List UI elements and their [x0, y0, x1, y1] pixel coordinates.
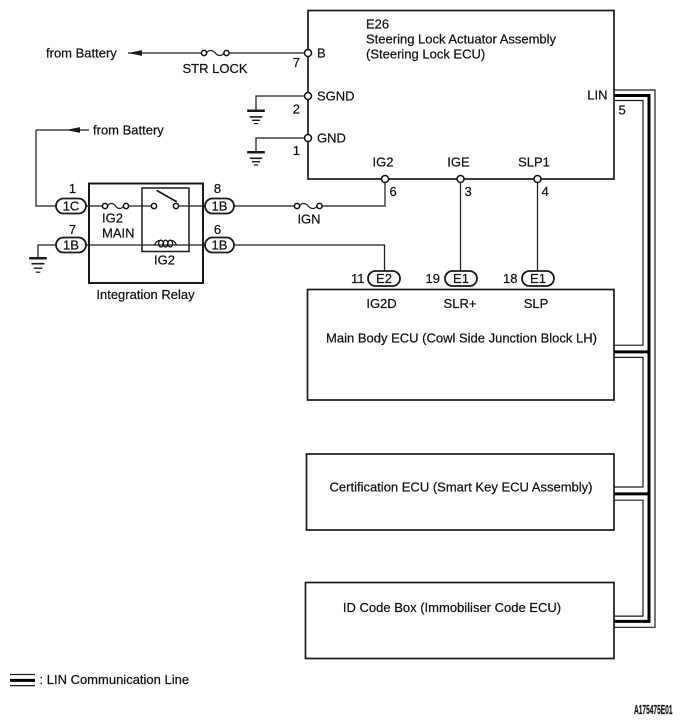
svg-text:LIN: LIN: [587, 88, 607, 103]
box E26 Steering Lock Actuator Assembly: [308, 11, 614, 180]
LIN bus inner thin line (Certification ECU to ID Code Box): [614, 500, 643, 616]
wire SGND to ground: [256, 96, 305, 110]
svg-text:MAIN: MAIN: [102, 226, 135, 241]
ground (SGND): [247, 111, 265, 124]
svg-text:from Battery: from Battery: [46, 46, 117, 61]
wire 1C to fuse: [86, 205, 102, 207]
svg-text:1B: 1B: [212, 238, 228, 253]
arrow (top battery feed): [128, 50, 201, 56]
pin IGE (3) of E26: [447, 155, 471, 200]
svg-text:ID Code Box (Immobiliser Code: ID Code Box (Immobiliser Code ECU): [343, 600, 561, 615]
ground (relay): [29, 258, 47, 272]
svg-text:5: 5: [619, 103, 626, 118]
svg-text:IGE: IGE: [447, 155, 470, 170]
svg-text:1: 1: [69, 181, 76, 196]
legend LIN communication line symbol: [10, 675, 35, 686]
svg-text:4: 4: [542, 184, 549, 199]
connector 1B (pin 8): [205, 181, 234, 214]
svg-text:Main Body ECU (Cowl Side Junct: Main Body ECU (Cowl Side Junction Block …: [326, 331, 597, 346]
wire coil row (1B pin7 to 1B pin6): [86, 244, 205, 246]
ground (GND): [247, 152, 265, 165]
svg-text:E1: E1: [453, 271, 469, 286]
svg-text:7: 7: [293, 55, 300, 70]
wire relay 1B pin6 to E2 connector: [234, 245, 385, 271]
LIN bus thick line: [614, 96, 649, 622]
svg-text:A175475E01: A175475E01: [634, 702, 673, 717]
svg-text:B: B: [317, 46, 326, 61]
wire SLP1 to E1 connector: [537, 183, 539, 272]
svg-text:19: 19: [426, 271, 440, 286]
pin B (7) of E26: [293, 46, 326, 70]
wire IGE to E1 connector: [460, 183, 462, 272]
LIN bus thick stub to Certification ECU: [614, 492, 651, 495]
svg-text:E26: E26: [366, 17, 389, 32]
svg-text:1: 1: [293, 143, 300, 158]
connector 1B (pin 6): [205, 222, 234, 253]
svg-text:Integration Relay: Integration Relay: [96, 287, 195, 302]
svg-text:SLP1: SLP1: [518, 155, 550, 170]
svg-text:1C: 1C: [63, 199, 80, 214]
svg-text:11: 11: [351, 271, 365, 286]
svg-text:IG2D: IG2D: [366, 296, 396, 311]
svg-text:6: 6: [214, 222, 221, 237]
svg-text:1B: 1B: [212, 199, 228, 214]
svg-text:7: 7: [69, 222, 76, 237]
svg-text:GND: GND: [317, 131, 346, 146]
svg-text:: LIN Communication Line: : LIN Communication Line: [40, 672, 190, 687]
connector E1 (pin 19): [426, 271, 477, 286]
box ID Code Box: [306, 583, 615, 659]
wire IGN fuse to pin 6 IG2: [322, 183, 385, 207]
LIN bus inner thin line (E26 to Main Body ECU): [614, 101, 643, 346]
svg-text:IG2: IG2: [102, 211, 123, 226]
svg-text:IGN: IGN: [297, 212, 320, 227]
connector 1B (pin 7): [56, 222, 86, 253]
wire GND to ground: [256, 138, 305, 151]
relay switch contacts: [151, 203, 178, 208]
fuse STR LOCK: [182, 50, 247, 75]
wire battery feed down to 1C: [36, 130, 56, 206]
svg-text:1B: 1B: [63, 238, 79, 253]
pin SLP1 (4) of E26: [518, 155, 550, 200]
LIN bus thick stub to Main Body ECU: [614, 350, 651, 353]
svg-text:E2: E2: [376, 271, 392, 286]
fuse IGN: [294, 203, 322, 226]
svg-text:STR LOCK: STR LOCK: [182, 61, 247, 76]
svg-text:Steering Lock Actuator Assembl: Steering Lock Actuator Assembly: [366, 32, 557, 47]
svg-text:SGND: SGND: [317, 89, 355, 104]
svg-text:E1: E1: [530, 271, 546, 286]
pin GND (1) of E26: [293, 131, 346, 159]
wire 1B pin8 to IGN fuse: [234, 205, 294, 207]
svg-text:IG2: IG2: [154, 253, 175, 268]
svg-text:18: 18: [503, 271, 517, 286]
wire fuse to switch: [129, 205, 152, 207]
svg-text:SLP: SLP: [524, 296, 549, 311]
connector E1 (pin 18): [503, 271, 554, 286]
inner relay box: [142, 188, 189, 252]
wire switch to 1B pin 8: [179, 205, 205, 207]
svg-text:6: 6: [390, 184, 397, 199]
box Certification ECU: [307, 454, 615, 530]
connector E2 (pin 11): [351, 271, 400, 286]
pin IG2 (6) of E26: [373, 155, 397, 200]
LIN bus inner thin line (Main Body ECU to Certification ECU): [614, 357, 643, 487]
LIN bus outer thin line: [614, 90, 655, 627]
svg-text:3: 3: [465, 184, 472, 199]
arrow (relay battery feed): [36, 127, 89, 133]
connector 1C (pin 1): [56, 181, 86, 214]
svg-text:Certification ECU (Smart Key E: Certification ECU (Smart Key ECU Assembl…: [330, 480, 593, 495]
wire fuse to pin B: [229, 52, 304, 54]
svg-text:2: 2: [293, 102, 300, 117]
svg-text:(Steering Lock ECU): (Steering Lock ECU): [366, 47, 485, 62]
svg-text:8: 8: [214, 181, 221, 196]
pin SGND (2) of E26: [293, 89, 355, 117]
fuse IG2 MAIN: [102, 203, 135, 240]
svg-text:SLR+: SLR+: [444, 296, 477, 311]
relay switch blade: [157, 190, 177, 202]
box Main Body ECU: [308, 290, 615, 401]
wire 1B pin7 to ground: [38, 245, 56, 257]
svg-text:from Battery: from Battery: [93, 123, 164, 138]
relay coil IG2: [154, 240, 176, 268]
svg-text:IG2: IG2: [373, 155, 394, 170]
box Integration Relay: [89, 184, 203, 303]
